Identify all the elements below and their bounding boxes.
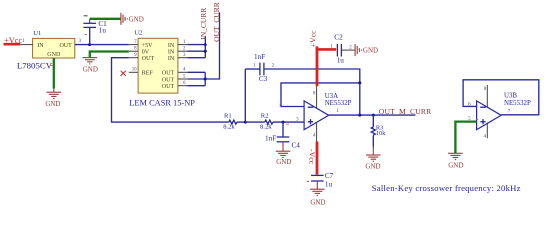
svg-text:GND: GND (45, 100, 60, 108)
svg-text:IN: IN (168, 56, 175, 62)
capacitor C2 (330, 33, 352, 64)
power wire +Vcc middle (308, 30, 336, 86)
node R1/R2 junction (244, 121, 247, 124)
tiny designator marks (50, 65, 478, 124)
svg-text:IN: IN (168, 49, 175, 55)
svg-text:C7: C7 (325, 172, 334, 180)
svg-text:GND: GND (47, 52, 61, 58)
svg-text:U1: U1 (33, 30, 41, 37)
svg-text:OUT: OUT (142, 56, 155, 62)
wire +Vcc to U1 pin1 (20, 44, 32, 46)
svg-text:C2: C2 (334, 33, 343, 41)
wire U3B feedback loop (463, 80, 539, 115)
resistor R1 (223, 112, 237, 130)
node pins1-2 junctions (204, 43, 207, 46)
svg-text:4: 4 (483, 135, 486, 140)
svg-text:GND: GND (83, 65, 98, 73)
svg-text:1u: 1u (325, 181, 333, 189)
svg-text:8: 8 (313, 92, 316, 97)
ground under U1 (45, 89, 61, 109)
svg-text:GND: GND (310, 198, 325, 206)
ground at U3B pin5 (448, 153, 463, 169)
svg-text:1nF: 1nF (265, 134, 276, 142)
U1 GND wire green (53, 58, 55, 89)
svg-text:+5V: +5V (142, 43, 153, 49)
pin stub U2 pin10 REF (129, 71, 138, 73)
pin stubs U2 right pins 1-3 (178, 45, 188, 58)
wire junction to R2 (245, 121, 264, 123)
wire C3 pin2 to feedback vertical (264, 69, 360, 115)
node output junction (358, 114, 361, 117)
ground under R3 (365, 147, 380, 171)
power port +Vcc left (4, 36, 23, 45)
resistor R3 (371, 115, 386, 147)
node junction C1 tap (88, 43, 91, 46)
svg-text:OUT_M_CURR: OUT_M_CURR (379, 107, 432, 116)
svg-text:1: 1 (22, 39, 25, 44)
svg-text:10k: 10k (376, 130, 386, 137)
svg-text:8.2k: 8.2k (260, 124, 272, 131)
svg-text:U3A: U3A (325, 93, 338, 100)
pin 8 stub U3A (316, 86, 318, 108)
svg-text:R1: R1 (224, 112, 232, 119)
wire R2 to op-amp pin3 (273, 121, 304, 123)
pin stub U2 pin7 (129, 44, 138, 46)
svg-text:C3: C3 (259, 75, 268, 83)
svg-text:+Vcc: +Vcc (308, 30, 317, 47)
svg-text:GND: GND (365, 162, 380, 170)
op-amp U3B (477, 93, 531, 130)
wire green C1 to GND (90, 18, 121, 20)
svg-text:1u: 1u (337, 57, 345, 65)
ground at U2 0V (83, 58, 98, 64)
node R2/C4 junction (282, 121, 285, 124)
wire U2 pin9 down and right to R1 (112, 58, 229, 122)
svg-text:OUT: OUT (162, 71, 175, 77)
svg-text:IN: IN (168, 43, 175, 49)
node feedback junction (358, 81, 361, 84)
wires U2 pins 1-3 to IN_CURR (187, 37, 205, 58)
wires U2 pins 4-6 to OUT_CURR (187, 12, 219, 86)
svg-text:NE5532P: NE5532P (504, 100, 531, 107)
svg-text:OUT: OUT (59, 43, 72, 49)
wire to C3 pin1 (245, 68, 259, 70)
svg-text:R2: R2 (261, 112, 269, 119)
no-connect X on pin 10 (121, 71, 126, 76)
svg-text:1nF: 1nF (254, 53, 265, 61)
svg-text:C4: C4 (292, 142, 301, 150)
svg-text:OUT: OUT (162, 77, 175, 83)
pin stub U2 pin8 (129, 50, 138, 52)
svg-text:1u: 1u (99, 26, 107, 34)
svg-text:GND: GND (363, 47, 378, 55)
node pin5 junction (204, 78, 207, 81)
svg-text:GND: GND (129, 15, 144, 23)
ground (rotated) at C2 (355, 44, 361, 56)
svg-text:4: 4 (313, 133, 316, 138)
svg-text:U2: U2 (134, 30, 142, 37)
svg-text:1: 1 (253, 63, 256, 68)
wire op-amp output (329, 114, 416, 116)
svg-text:2: 2 (272, 64, 275, 69)
svg-text:NE5532P: NE5532P (325, 100, 352, 107)
svg-text:+Vcc: +Vcc (4, 36, 22, 45)
capacitor C3 (253, 53, 275, 83)
svg-text:1: 1 (336, 109, 339, 114)
svg-text:8: 8 (484, 87, 487, 92)
node R3 junction (372, 114, 375, 117)
pin stub U2 pin9 (129, 57, 138, 59)
ground under C7 (310, 181, 325, 206)
svg-text:OUT: OUT (162, 84, 175, 90)
svg-text:GND: GND (276, 158, 291, 166)
ground (rotated) at C1 (121, 13, 127, 25)
svg-text:0V: 0V (142, 49, 150, 55)
wire R1 to junction (237, 121, 245, 123)
capacitor C1 (83, 16, 107, 45)
wire inner feedback loop pin2 (281, 83, 360, 107)
current sensor U2 (129, 30, 195, 108)
svg-text:GND: GND (448, 161, 463, 169)
pin 8 stub U3B (486, 85, 488, 108)
svg-text:IN: IN (37, 43, 44, 49)
svg-text:3: 3 (79, 39, 82, 44)
wire U1 pin3 to U2 pin7 (75, 44, 129, 46)
resistor R2 (260, 112, 273, 130)
svg-text:OUT_CURR: OUT_CURR (212, 2, 221, 42)
svg-text:-Vcc: -Vcc (308, 149, 317, 165)
svg-text:L7805CV: L7805CV (17, 60, 53, 70)
pin 4 stub U3B (486, 123, 488, 139)
wire C2 pin2 to GND (342, 49, 355, 51)
wire C3 branch vertical (244, 69, 246, 122)
regulator U1 (17, 30, 75, 70)
svg-text:LEM CASR 15-NP: LEM CASR 15-NP (129, 99, 195, 108)
power wire -Vcc (308, 141, 317, 174)
capacitor C7 (307, 172, 334, 189)
svg-text:IN_CURR: IN_CURR (199, 8, 208, 40)
svg-text:8.2k: 8.2k (223, 124, 235, 131)
capacitor C4 (265, 122, 300, 150)
svg-text:7: 7 (508, 109, 511, 114)
wire green U3B pin5 to GND (455, 122, 476, 153)
ground under C4 (276, 142, 292, 166)
op-amp U3A (304, 93, 352, 130)
wire green U2 pin8 to GND (90, 52, 129, 58)
pin stubs U2 right pins 4-6 (178, 72, 188, 85)
svg-text:U3B: U3B (504, 93, 517, 100)
svg-text:Sallen-Key crossower frequency: Sallen-Key crossower frequency: 20kHz (372, 183, 521, 193)
pin 4 stub U3A (316, 123, 318, 142)
svg-text:REF: REF (142, 71, 154, 77)
